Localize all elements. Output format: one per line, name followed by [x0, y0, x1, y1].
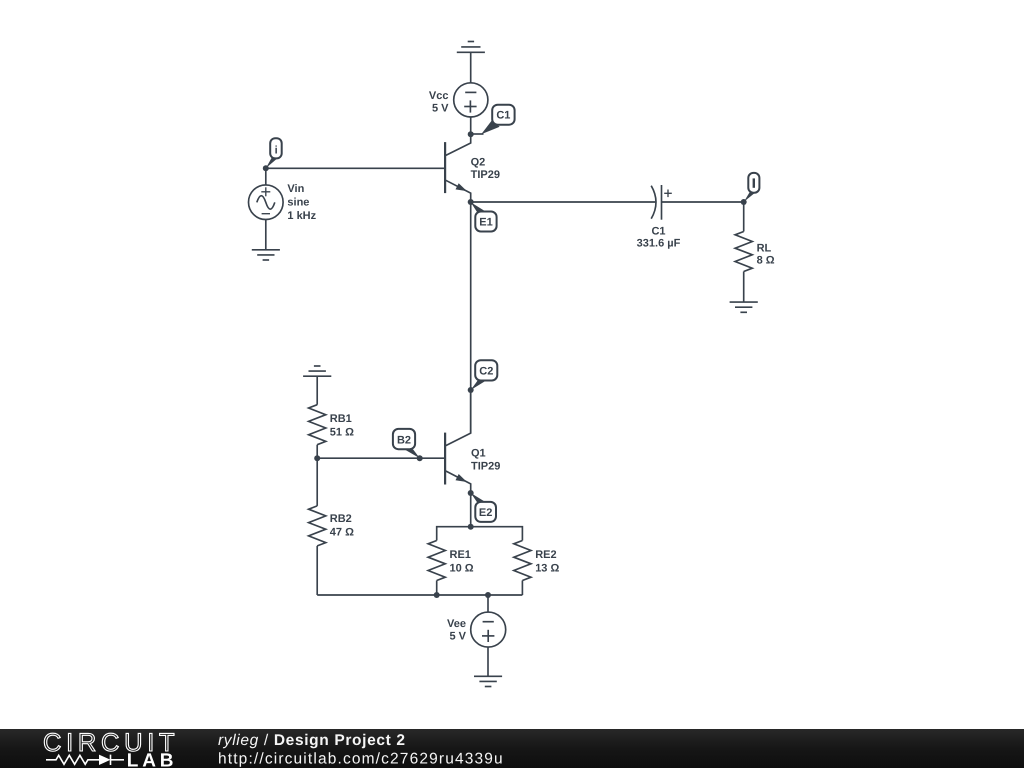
- wire Vin to ground: [265, 220, 267, 250]
- wire output node to RL: [743, 202, 745, 232]
- svg-text:RE2: RE2: [535, 549, 556, 561]
- svg-text:10 Ω: 10 Ω: [450, 562, 474, 574]
- wire RE top rail: [437, 527, 523, 541]
- wire ground to Vcc: [470, 52, 472, 83]
- svg-text:Q1: Q1: [471, 447, 486, 459]
- ground (top, for Vcc): [457, 42, 485, 53]
- wire E1 to capacitor: [471, 201, 656, 203]
- logo resistor-diode squiggle: [46, 755, 124, 765]
- wire ground to RB1: [316, 376, 318, 405]
- footer bar: [0, 729, 1024, 768]
- svg-text:5 V: 5 V: [432, 102, 449, 114]
- svg-text:331.6 µF: 331.6 µF: [637, 238, 681, 250]
- node Vee junction dot: [485, 592, 491, 598]
- wire RB2 bottom rail: [317, 594, 522, 596]
- voltage source Vee: [447, 612, 506, 647]
- ground (top of RB1): [303, 366, 331, 376]
- wire Vee node to Vee source: [487, 595, 489, 612]
- svg-text:C2: C2: [479, 366, 493, 378]
- node C2 junction dot: [468, 387, 474, 393]
- svg-text:B2: B2: [397, 435, 411, 447]
- node output junction dot: [741, 199, 747, 205]
- node flag C1: [471, 105, 515, 135]
- svg-text:LAB: LAB: [127, 750, 177, 768]
- node C1 junction dot: [468, 131, 474, 137]
- svg-text:RL: RL: [757, 242, 772, 254]
- node flag E1: [471, 202, 497, 231]
- svg-text:8 Ω: 8 Ω: [757, 255, 775, 267]
- node i (input) flag: [266, 138, 282, 168]
- wire RE2 to bottom rail: [521, 581, 523, 596]
- svg-text:E2: E2: [479, 507, 492, 519]
- svg-text:C1: C1: [651, 225, 665, 237]
- svg-text:Vcc: Vcc: [429, 90, 449, 102]
- resistor RB1: [309, 405, 354, 445]
- wire RB1 node to RB2: [316, 458, 318, 506]
- node i (output) flag: [744, 173, 759, 202]
- svg-text:rylieg / Design Project 2: rylieg / Design Project 2: [218, 732, 406, 749]
- ground (under RL): [730, 302, 758, 312]
- svg-text:RB2: RB2: [330, 513, 352, 525]
- svg-text:sine: sine: [287, 197, 309, 209]
- svg-text:47 Ω: 47 Ω: [330, 526, 354, 538]
- svg-text:i: i: [275, 144, 278, 156]
- svg-text:E1: E1: [479, 216, 492, 228]
- wire RE1 to bottom rail: [436, 581, 438, 596]
- voltage source Vcc: [429, 83, 488, 117]
- ground (under Vee): [474, 676, 502, 686]
- node RE rail junction dot: [468, 524, 474, 530]
- svg-text:Q2: Q2: [471, 156, 486, 168]
- resistor RE1: [428, 541, 474, 581]
- wire RL to ground: [743, 272, 745, 303]
- capacitor C1: [637, 185, 681, 250]
- node RE1 bottom junction dot: [434, 592, 440, 598]
- wire capacitor to output node: [662, 201, 744, 203]
- svg-text:TIP29: TIP29: [471, 169, 500, 181]
- svg-text:13 Ω: 13 Ω: [535, 562, 559, 574]
- wire RB1 to base node: [316, 445, 318, 459]
- wire input to Q2 base: [266, 167, 445, 169]
- node E2 junction dot: [468, 490, 474, 496]
- svg-text:51 Ω: 51 Ω: [330, 427, 354, 439]
- node flag B2: [393, 429, 420, 458]
- node B2 junction dot: [417, 455, 423, 461]
- node base junction dot: [314, 455, 320, 461]
- ground (under Vin): [252, 250, 280, 260]
- wire E2 to RE rail: [470, 493, 472, 527]
- resistor RL: [735, 232, 775, 272]
- wire input node to Vin: [265, 168, 267, 185]
- svg-text:RB1: RB1: [330, 413, 352, 425]
- svg-text:RE1: RE1: [450, 549, 471, 561]
- svg-text:C1: C1: [496, 110, 510, 122]
- voltage source Vin: [248, 183, 316, 222]
- svg-text:1 kHz: 1 kHz: [287, 210, 316, 222]
- svg-text:Vin: Vin: [287, 183, 304, 195]
- node E1 junction dot: [468, 199, 474, 205]
- wire Vee to ground: [487, 647, 489, 676]
- resistor RE2: [514, 541, 560, 581]
- wire E1 down to C2 and Q1 collector: [470, 202, 472, 433]
- transistor Q2: [445, 134, 500, 202]
- transistor Q1: [445, 389, 500, 494]
- wire base node to Q1 base: [317, 457, 445, 459]
- resistor RB2: [309, 506, 354, 546]
- svg-text:5 V: 5 V: [449, 631, 466, 643]
- svg-text:TIP29: TIP29: [471, 460, 500, 472]
- svg-text:http://circuitlab.com/c27629ru: http://circuitlab.com/c27629ru4339u: [218, 751, 504, 768]
- node flag E2: [471, 493, 496, 522]
- wire Vcc to collector node: [470, 117, 472, 134]
- node input junction dot: [263, 165, 269, 171]
- node flag C2: [471, 360, 498, 390]
- svg-text:Vee: Vee: [447, 618, 466, 630]
- wire RB2 to bottom rail: [316, 546, 318, 595]
